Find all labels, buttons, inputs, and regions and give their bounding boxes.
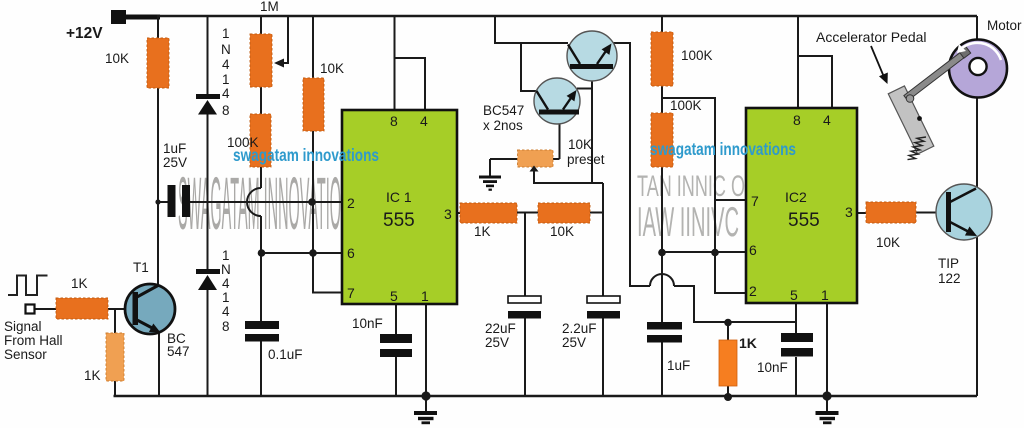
svg-text:10K: 10K bbox=[568, 137, 592, 152]
svg-text:1: 1 bbox=[222, 72, 230, 87]
svg-text:1uF: 1uF bbox=[163, 141, 186, 156]
svg-text:N: N bbox=[221, 262, 231, 277]
svg-text:25V: 25V bbox=[562, 335, 586, 350]
svg-text:555: 555 bbox=[383, 210, 415, 231]
svg-text:6: 6 bbox=[347, 245, 355, 261]
svg-text:100K: 100K bbox=[670, 98, 702, 113]
svg-text:TIP: TIP bbox=[938, 256, 959, 271]
svg-text:5: 5 bbox=[390, 288, 398, 304]
svg-text:22uF: 22uF bbox=[485, 321, 516, 336]
svg-text:1K: 1K bbox=[474, 224, 491, 239]
svg-text:+12V: +12V bbox=[66, 25, 103, 42]
svg-text:4: 4 bbox=[823, 112, 831, 128]
svg-text:10nF: 10nF bbox=[757, 360, 788, 375]
svg-text:25V: 25V bbox=[163, 155, 187, 170]
svg-text:8: 8 bbox=[390, 113, 398, 129]
svg-text:SWAGATAM INNOVATIO: SWAGATAM INNOVATIO bbox=[178, 162, 341, 245]
svg-text:100K: 100K bbox=[681, 48, 713, 63]
svg-text:100K: 100K bbox=[227, 135, 259, 150]
svg-text:2.2uF: 2.2uF bbox=[562, 321, 597, 336]
svg-text:IC 1: IC 1 bbox=[386, 189, 412, 205]
svg-text:10nF: 10nF bbox=[352, 316, 383, 331]
svg-text:122: 122 bbox=[938, 271, 961, 286]
svg-text:4: 4 bbox=[222, 304, 230, 319]
svg-text:x 2nos: x 2nos bbox=[483, 118, 523, 133]
svg-text:1K: 1K bbox=[71, 276, 88, 291]
svg-text:4: 4 bbox=[222, 57, 230, 72]
svg-text:0.1uF: 0.1uF bbox=[268, 347, 303, 362]
svg-text:4: 4 bbox=[222, 276, 230, 291]
svg-text:6: 6 bbox=[749, 242, 757, 258]
svg-text:Signal: Signal bbox=[4, 319, 42, 334]
svg-text:3: 3 bbox=[845, 204, 853, 220]
svg-text:7: 7 bbox=[751, 193, 759, 209]
svg-text:From Hall: From Hall bbox=[4, 333, 63, 348]
svg-text:547: 547 bbox=[167, 344, 190, 359]
svg-text:2: 2 bbox=[749, 283, 757, 299]
svg-text:1uF: 1uF bbox=[667, 358, 690, 373]
svg-text:IC2: IC2 bbox=[785, 189, 807, 205]
svg-text:3: 3 bbox=[444, 206, 452, 222]
svg-text:N: N bbox=[221, 42, 231, 57]
svg-text:Motor: Motor bbox=[987, 18, 1022, 33]
svg-text:1: 1 bbox=[421, 288, 429, 304]
svg-text:10K: 10K bbox=[550, 224, 574, 239]
svg-text:5: 5 bbox=[790, 287, 798, 303]
svg-text:IAW IINIVC: IAW IINIVC bbox=[637, 198, 739, 245]
svg-text:10K: 10K bbox=[105, 51, 129, 66]
svg-text:Accelerator Pedal: Accelerator Pedal bbox=[816, 29, 927, 45]
svg-text:25V: 25V bbox=[485, 335, 509, 350]
svg-text:Sensor: Sensor bbox=[4, 347, 47, 362]
svg-text:1: 1 bbox=[222, 290, 230, 305]
svg-text:10K: 10K bbox=[876, 235, 900, 250]
svg-text:8: 8 bbox=[793, 112, 801, 128]
svg-text:T1: T1 bbox=[133, 260, 149, 275]
svg-text:1M: 1M bbox=[260, 0, 279, 14]
svg-text:1: 1 bbox=[222, 248, 230, 263]
svg-text:555: 555 bbox=[788, 210, 820, 231]
svg-text:swagatam innovations: swagatam innovations bbox=[650, 139, 796, 159]
svg-text:10K: 10K bbox=[320, 61, 344, 76]
svg-text:8: 8 bbox=[222, 103, 230, 118]
svg-text:1: 1 bbox=[821, 287, 829, 303]
svg-text:2: 2 bbox=[347, 195, 355, 211]
svg-text:1: 1 bbox=[222, 26, 230, 41]
svg-text:BC547: BC547 bbox=[483, 103, 524, 118]
svg-text:4: 4 bbox=[420, 113, 428, 129]
svg-text:preset: preset bbox=[567, 152, 605, 167]
svg-text:1K: 1K bbox=[739, 335, 757, 351]
svg-text:8: 8 bbox=[222, 319, 230, 334]
svg-text:4: 4 bbox=[222, 86, 230, 101]
svg-text:1K: 1K bbox=[84, 368, 101, 383]
svg-text:7: 7 bbox=[347, 285, 355, 301]
